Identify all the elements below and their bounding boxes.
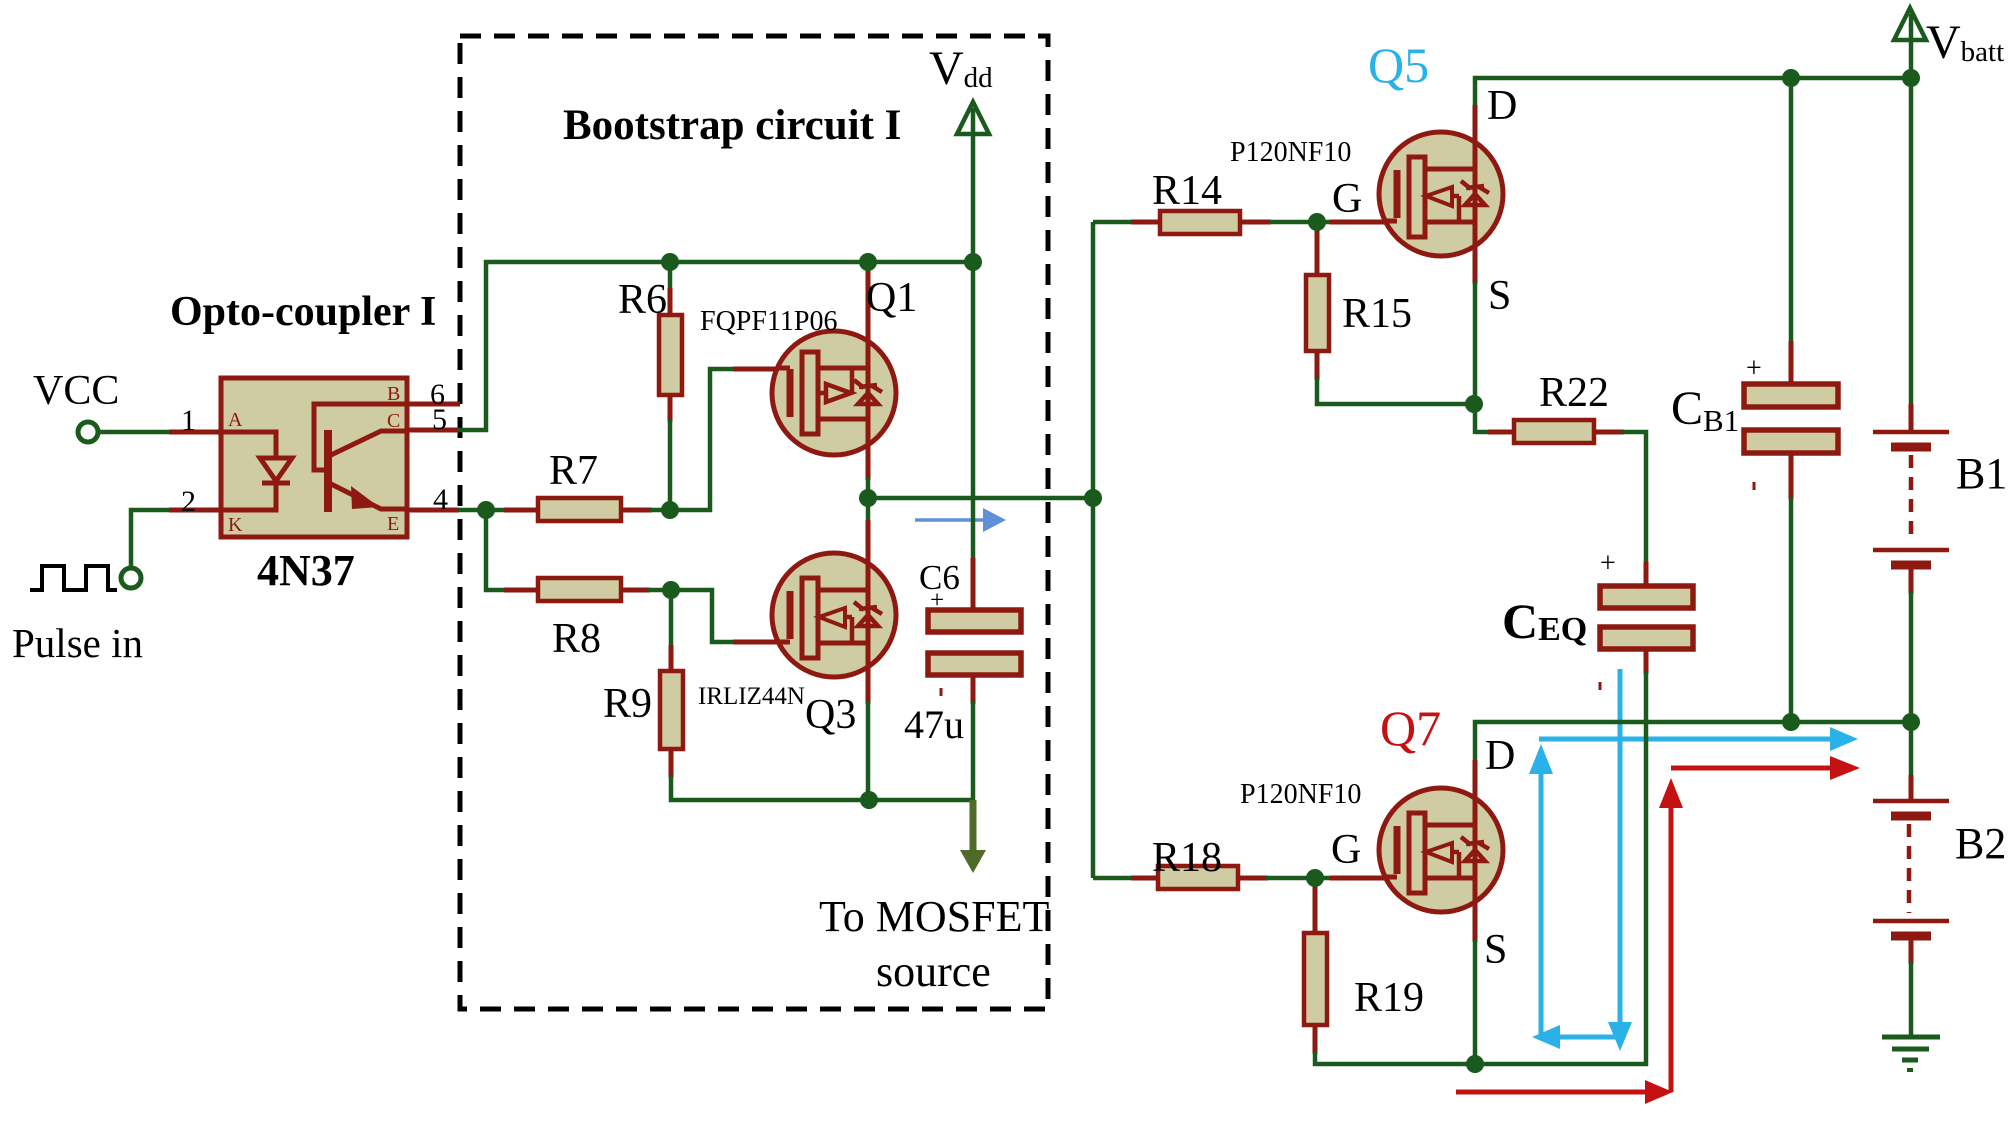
wire CEQ bottom down to source rail xyxy=(1644,672,1649,1066)
blue current-loop arrow vertical down (from CEQ) xyxy=(1608,669,1632,1051)
R19 bottom lead xyxy=(1313,1025,1318,1054)
svg-text:C: C xyxy=(387,410,400,432)
transistor Q1 FQPF11P06 xyxy=(772,329,896,457)
junction node Q7 gate xyxy=(1306,869,1324,887)
junction node R8-R9 gate Q3 xyxy=(662,581,680,599)
C6 minus tick xyxy=(940,688,943,696)
svg-text:Pulse in: Pulse in xyxy=(12,620,143,666)
transistor Q3 IRLIZ44N xyxy=(772,551,896,679)
junction node Vdd rail Q1 drain xyxy=(859,253,877,271)
svg-text:G: G xyxy=(1332,176,1362,222)
svg-text:R7: R7 xyxy=(549,448,598,494)
opto internal LED xyxy=(221,432,292,510)
R8 leads xyxy=(504,588,540,593)
svg-text:S: S xyxy=(1484,927,1507,973)
ground xyxy=(1882,1037,1940,1070)
junction node opto pin4 xyxy=(477,501,495,519)
svg-text:+: + xyxy=(930,587,944,614)
svg-text:R9: R9 xyxy=(603,681,652,727)
VCC input terminal xyxy=(78,422,98,442)
svg-text:Q1: Q1 xyxy=(866,275,917,321)
resistor R22 xyxy=(1514,420,1594,443)
junction node output left xyxy=(859,489,877,507)
svg-text:B: B xyxy=(387,383,400,405)
capacitor CB1 plates xyxy=(1744,384,1838,453)
svg-text:IRLIZ44N: IRLIZ44N xyxy=(698,683,805,710)
opto pin 5 lead (C) xyxy=(407,428,459,433)
wire mid rail to B2 xyxy=(1909,722,1914,777)
Q1 drain lead from Vdd rail xyxy=(866,262,871,330)
Q7 drain wire to mid rail xyxy=(1475,722,1911,762)
blue current-loop bottom segment with left arrowhead xyxy=(1532,1025,1620,1049)
svg-text:A: A xyxy=(228,409,243,431)
svg-text:B2: B2 xyxy=(1955,819,2006,868)
wire gate of Q1 xyxy=(670,369,736,510)
R15 top lead xyxy=(1315,224,1320,275)
resistor R6 xyxy=(659,315,682,395)
resistor R8 xyxy=(538,578,621,601)
wire bus to R18 xyxy=(1093,876,1133,881)
R7 leads xyxy=(504,508,540,513)
opto-coupler U1 4N37 body xyxy=(221,378,407,537)
capacitor C6 plates xyxy=(928,610,1021,675)
opto pin 4 lead (E) xyxy=(407,508,459,513)
svg-text:Vbatt: Vbatt xyxy=(1926,16,2004,69)
svg-text:2: 2 xyxy=(181,485,196,518)
Vdd power symbol xyxy=(957,102,989,134)
svg-text:47u: 47u xyxy=(904,702,964,747)
svg-text:source: source xyxy=(876,947,991,996)
battery B2 xyxy=(1873,801,1949,936)
wire R15 to Q5 source node xyxy=(1317,378,1476,404)
Q1 gate lead xyxy=(733,367,790,372)
wire node down to R8 xyxy=(486,510,510,590)
resistor R7 xyxy=(538,498,621,521)
C6 bottom lead xyxy=(971,675,976,704)
junction node Q5 gate xyxy=(1308,213,1326,231)
svg-text:R15: R15 xyxy=(1342,291,1412,337)
red current-loop bottom segment with right arrowhead xyxy=(1456,1080,1673,1104)
opto pin 2 lead xyxy=(169,508,221,513)
CB1 bottom lead xyxy=(1789,453,1794,499)
svg-text:FQPF11P06: FQPF11P06 xyxy=(700,306,837,337)
wire VCC input to opto pin 1 xyxy=(97,430,170,435)
svg-text:S: S xyxy=(1488,273,1511,319)
svg-text:VCC: VCC xyxy=(33,368,119,414)
CB1 minus tick xyxy=(1753,482,1756,490)
resistor R15 xyxy=(1306,275,1329,351)
svg-text:CEQ: CEQ xyxy=(1502,593,1587,649)
opto pin 1 lead xyxy=(169,430,221,435)
wire bus to R14 xyxy=(1093,220,1133,225)
Q1 source lead xyxy=(866,456,871,480)
Q5 source lead xyxy=(1473,255,1478,284)
svg-text:D: D xyxy=(1485,733,1515,779)
CEQ bottom lead xyxy=(1644,649,1649,674)
Q7 gate lead xyxy=(1330,876,1397,881)
Q3 gate lead xyxy=(733,640,790,645)
svg-text:E: E xyxy=(387,513,399,535)
C6 top lead xyxy=(971,558,976,612)
junction node Vdd rail left xyxy=(661,253,679,271)
wire B1 bottom to mid rail xyxy=(1909,592,1914,724)
CEQ minus tick xyxy=(1599,682,1602,690)
Pulse in terminal xyxy=(121,568,141,588)
B2 bottom lead xyxy=(1909,934,1914,964)
resistor R18 xyxy=(1158,866,1238,889)
wire R7 to gate node xyxy=(650,508,672,513)
Q7 source lead xyxy=(1473,911,1478,942)
svg-text:K: K xyxy=(228,514,243,536)
R6 bottom lead and wire xyxy=(668,395,673,422)
Vbatt power symbol xyxy=(1894,8,1926,40)
junction node Vbatt rail CB1 xyxy=(1782,69,1800,87)
wire R22 to CEQ top xyxy=(1622,432,1646,564)
svg-text:+: + xyxy=(1746,353,1762,384)
B1 bottom lead xyxy=(1909,565,1914,594)
opto internal phototransistor xyxy=(314,404,407,512)
R22 leads xyxy=(1488,430,1514,435)
junction node Q5 source R15 xyxy=(1465,395,1483,413)
blue current-loop arrow horizontal (to battery) xyxy=(1539,727,1858,751)
svg-text:4: 4 xyxy=(433,483,448,516)
wire Vbatt down to B1 xyxy=(1909,14,1914,406)
B1 top lead xyxy=(1909,404,1914,432)
wire opto pin 4 node to R7 xyxy=(457,508,510,513)
svg-text:CB1: CB1 xyxy=(1671,382,1739,438)
svg-text:P120NF10: P120NF10 xyxy=(1230,137,1351,168)
junction node Vdd rail Vdd line xyxy=(964,253,982,271)
svg-text:R22: R22 xyxy=(1539,370,1609,416)
svg-text:P120NF10: P120NF10 xyxy=(1240,779,1361,810)
red current-loop arrow horizontal (to battery B2) xyxy=(1671,756,1860,780)
svg-text:To MOSFET: To MOSFET xyxy=(819,892,1050,941)
svg-text:Bootstrap circuit I: Bootstrap circuit I xyxy=(563,102,901,149)
R6 top lead and wire xyxy=(668,262,673,290)
wire Q5 source to R22 xyxy=(1475,430,1492,435)
Q5 gate lead xyxy=(1330,220,1397,225)
svg-text:4N37: 4N37 xyxy=(257,546,355,595)
Q3 source lead xyxy=(866,676,871,704)
R18 leads xyxy=(1131,876,1158,881)
wire opto pin 5 up to Vdd rail xyxy=(457,262,971,430)
CEQ top lead xyxy=(1644,562,1649,586)
svg-text:5: 5 xyxy=(432,403,447,436)
R19 top lead xyxy=(1313,880,1318,933)
battery B1 xyxy=(1873,432,1949,565)
svg-text:G: G xyxy=(1331,827,1361,873)
junction node output bus xyxy=(1084,489,1102,507)
svg-text:R6: R6 xyxy=(618,277,667,323)
junction node Vbatt rail B1 xyxy=(1902,69,1920,87)
svg-text:Vdd: Vdd xyxy=(929,42,993,95)
svg-text:Opto-coupler I: Opto-coupler I xyxy=(170,289,436,335)
opto pin 6 lead (B, unconnected) xyxy=(407,402,460,407)
wire node down to R9 xyxy=(669,588,674,647)
capacitor CEQ plates xyxy=(1600,586,1693,649)
wire CB1 bottom to mid rail xyxy=(1789,497,1794,724)
wire CB1 top from Vbatt rail xyxy=(1789,76,1794,343)
R9 leads xyxy=(669,645,674,672)
To MOSFET source arrow xyxy=(960,800,986,873)
junction node bootstrap bottom rail xyxy=(860,791,878,809)
wire R19 to bottom rail xyxy=(1315,1052,1648,1064)
junction node mid rail B1-B2 xyxy=(1902,713,1920,731)
wire R8 to node xyxy=(648,588,673,593)
svg-text:B1: B1 xyxy=(1956,449,2007,498)
blue current-loop arrow vertical up xyxy=(1529,744,1553,1037)
pulse waveform symbol xyxy=(30,566,117,590)
wire gate of Q3 xyxy=(671,590,736,642)
svg-text:1: 1 xyxy=(181,404,196,437)
blue output current arrow near C6 xyxy=(915,508,1006,532)
resistor R14 xyxy=(1160,211,1240,234)
svg-text:R19: R19 xyxy=(1354,975,1424,1021)
junction node R7-R6 gate Q1 xyxy=(661,501,679,519)
svg-text:R8: R8 xyxy=(552,616,601,662)
CB1 top lead xyxy=(1789,341,1794,384)
svg-text:+: + xyxy=(1600,548,1616,579)
transistor Q7 P120NF10 xyxy=(1379,786,1503,914)
Q5 drain wire to Vbatt rail xyxy=(1475,78,1911,107)
svg-text:D: D xyxy=(1487,83,1517,129)
wire right gate bus vertical xyxy=(1091,222,1096,878)
junction node mid rail CB1 xyxy=(1782,713,1800,731)
red current-loop arrow vertical up xyxy=(1659,778,1683,1092)
transistor Q5 P120NF10 xyxy=(1379,130,1503,258)
Q3 drain lead xyxy=(866,496,871,522)
svg-text:Q7: Q7 xyxy=(1380,700,1441,756)
wire output node to right bus xyxy=(866,496,1095,501)
wire B2 bottom to ground xyxy=(1909,962,1914,1037)
svg-text:Q5: Q5 xyxy=(1368,37,1429,93)
junction node bottom rail Q7 source xyxy=(1466,1055,1484,1073)
wire Vdd vertical xyxy=(971,108,976,560)
svg-text:R14: R14 xyxy=(1152,168,1222,214)
B2 top lead xyxy=(1909,775,1914,801)
wire Pulse in to opto pin 2 xyxy=(131,510,170,569)
wire R14 to Q5 gate node xyxy=(1269,220,1334,225)
wire R9 to bootstrap bottom rail xyxy=(671,776,975,800)
resistor R19 xyxy=(1304,933,1327,1025)
R15 bottom lead xyxy=(1315,351,1320,380)
bootstrap dashed border xyxy=(460,36,1048,1009)
R14 leads xyxy=(1131,220,1160,225)
svg-text:Q3: Q3 xyxy=(805,692,856,738)
svg-text:R18: R18 xyxy=(1152,835,1222,881)
wire R18 to Q7 gate node xyxy=(1266,876,1334,881)
resistor R9 xyxy=(660,671,683,749)
